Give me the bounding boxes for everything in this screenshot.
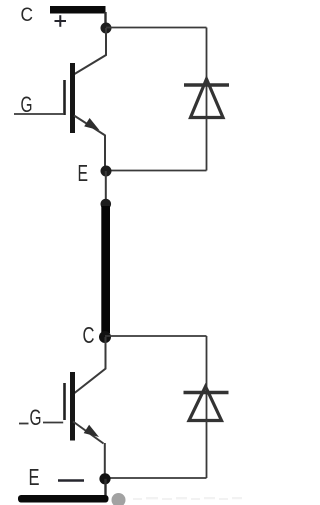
svg-text:C: C: [83, 322, 95, 348]
diode D2 triangle (anode, pointing up): [189, 387, 222, 421]
diode D1 cathode bar: [184, 83, 229, 87]
wire: top diode branch (vertical): [206, 28, 208, 119]
wire: Q1 emitter down to node: [104, 135, 106, 168]
IGBT Q1 body bar: [70, 63, 75, 133]
node: top collector junction: [101, 23, 112, 34]
wire: bottom diode branch (vertical): [206, 336, 208, 421]
IGBT Q2 gate lead stub: [19, 423, 29, 425]
diode D1 triangle (anode, pointing up): [191, 79, 224, 118]
node: bottom emitter junction: [99, 473, 110, 484]
wire: Q2 emitter down to node: [104, 443, 106, 475]
svg-text:G: G: [21, 92, 33, 117]
IGBT Q1 emitter arrowhead: [84, 118, 99, 130]
diode D2 cathode bar: [184, 391, 229, 395]
IGBT Q2 emitter line: [73, 422, 104, 444]
IGBT Q2 gate bar: [63, 383, 66, 420]
watermark logo: [112, 493, 126, 505]
svg-text:C: C: [21, 5, 34, 26]
IGBT Q2 gate lead: [43, 422, 63, 424]
wire: emitter node to DC- bus bar: [104, 479, 106, 496]
wire: node down to IGBT Q1 collector: [75, 28, 107, 74]
IGBT Q2 body bar: [70, 372, 75, 441]
DC+ bus bar (top terminal): [50, 6, 106, 14]
IGBT Q1 gate bar: [63, 80, 66, 115]
watermark text: [133, 497, 242, 500]
wire: Q2 collector node down to IGBT Q2: [75, 337, 106, 393]
minus polarity mark: [58, 479, 84, 482]
node: output bar top: [101, 199, 112, 210]
wire: node to top diode (horizontal): [106, 27, 207, 29]
IGBT Q1 gate lead: [14, 113, 63, 115]
wire: Q2 collector node to bottom diode (horizontal): [105, 335, 207, 337]
plus polarity mark: [55, 15, 67, 27]
svg-text:E: E: [29, 464, 40, 490]
IGBT Q1 emitter line: [74, 116, 105, 136]
DC- bus bar (bottom terminal): [18, 495, 109, 503]
wire: top diode to emitter node (horizontal): [106, 170, 207, 172]
IGBT Q2 emitter arrowhead: [84, 425, 99, 437]
output bus bar (thick vertical): [101, 206, 110, 333]
svg-text:G: G: [30, 405, 42, 430]
wire: bottom diode anode lead (vertical): [206, 421, 208, 479]
node: emitter junction: [101, 166, 112, 177]
wire: top diode anode lead (vertical): [206, 118, 208, 171]
wire: bus bar to node: [104, 12, 106, 24]
wire: bottom diode to emitter node (horizontal): [105, 477, 207, 479]
node: output bar bottom / Q2 collector junction: [99, 331, 111, 343]
svg-text:E: E: [78, 160, 89, 186]
wire: emitter node to output bar: [105, 171, 107, 204]
